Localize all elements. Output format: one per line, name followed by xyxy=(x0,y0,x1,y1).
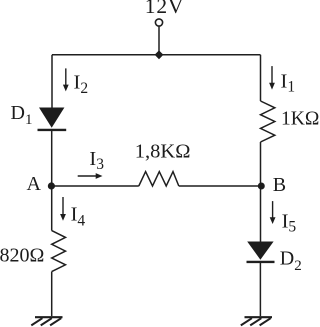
svg-text:I5: I5 xyxy=(282,210,297,235)
svg-text:D1: D1 xyxy=(11,102,33,128)
svg-text:I4: I4 xyxy=(71,204,86,230)
svg-text:I2: I2 xyxy=(74,72,89,97)
svg-text:I3: I3 xyxy=(89,148,104,173)
svg-text:A: A xyxy=(27,173,42,195)
svg-text:1KΩ: 1KΩ xyxy=(281,109,319,130)
svg-text:D2: D2 xyxy=(280,247,302,274)
svg-text:12V: 12V xyxy=(145,0,184,18)
svg-text:B: B xyxy=(273,174,286,196)
svg-text:820Ω: 820Ω xyxy=(0,245,44,267)
svg-text:1,8KΩ: 1,8KΩ xyxy=(135,140,191,162)
svg-text:I1: I1 xyxy=(281,71,296,96)
